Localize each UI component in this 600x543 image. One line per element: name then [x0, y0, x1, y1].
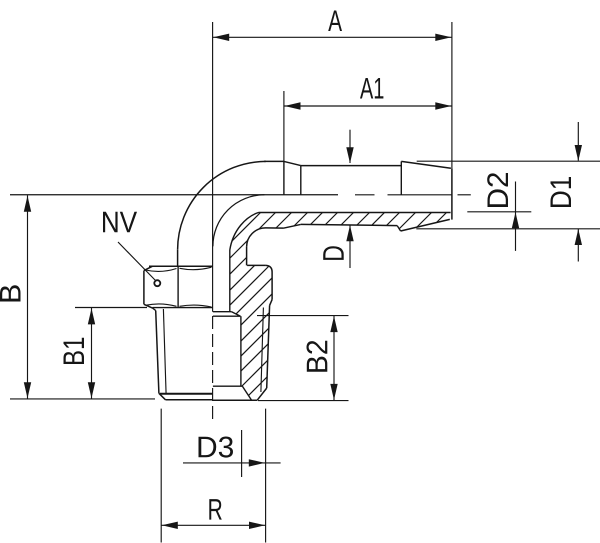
dim D1 extension top — [417, 160, 600, 162]
thread left crest edge — [156, 311, 159, 394]
horizontal centerline dash 1 — [355, 194, 375, 196]
bore corner arc — [230, 213, 259, 251]
NV leader dot — [154, 280, 160, 286]
label D3 — [198, 436, 233, 457]
vertical centerline (A extension) — [212, 22, 214, 312]
transition bottom step — [284, 224, 301, 228]
hex top left chamfer — [144, 266, 153, 270]
nipple bottom line — [301, 224, 397, 225]
tube end face — [451, 168, 453, 219]
bore shoulder lower — [213, 315, 241, 317]
thread bottom left chamfer — [159, 393, 166, 400]
dim B1 extension top — [75, 307, 147, 309]
barb transition cone — [284, 161, 301, 165]
dim D1 extension bottom — [416, 228, 600, 230]
barb back face — [400, 161, 402, 194]
horizontal section boundary line + B extension — [10, 194, 338, 196]
NV leader line — [118, 242, 156, 281]
dim A1 extension left — [283, 91, 285, 161]
hex right bottom chamfer — [270, 300, 273, 306]
dim D1 line lower — [577, 229, 579, 262]
dim D line lower — [349, 225, 351, 268]
hex face top chamfer arc middle — [180, 267, 212, 269]
dim D3 line — [183, 462, 281, 464]
tube bottom line — [266, 227, 284, 229]
dim D2 extension — [467, 211, 531, 213]
label NV — [103, 212, 137, 232]
label B1 — [64, 338, 84, 364]
barb cone bottom — [401, 219, 450, 231]
dim A extension right — [451, 22, 453, 168]
bottom face right — [213, 399, 257, 401]
dim B bottom extension — [10, 398, 155, 400]
dim B line — [27, 195, 29, 398]
transition front face — [300, 166, 302, 195]
dim R line — [161, 524, 265, 526]
label D2 — [487, 173, 508, 207]
bore bottom chamfer cone — [242, 386, 251, 400]
hex bottom line — [153, 307, 214, 309]
hex top line — [149, 265, 213, 267]
hex face top chamfer arc left — [146, 269, 177, 272]
elbow outer left edge — [177, 250, 179, 266]
armpit arc (inner bend outer surface) — [247, 228, 266, 247]
hex face line — [177, 266, 179, 307]
dim R extension right — [265, 409, 267, 543]
thread top left corner — [153, 308, 156, 310]
thread bottom right chamfer — [257, 388, 267, 400]
nipple top line — [301, 165, 402, 167]
section boundary arc — [213, 195, 265, 247]
dim A line — [213, 36, 452, 38]
dim D2 line — [515, 182, 517, 251]
barb bottom notch — [397, 226, 400, 231]
dim B2 extension top — [257, 315, 349, 317]
hex right edge — [271, 272, 273, 300]
dim B2 extension bottom — [258, 400, 349, 402]
label B2 — [306, 341, 327, 372]
label D — [323, 246, 343, 260]
label A — [328, 11, 342, 31]
bore shoulder upper — [213, 311, 232, 313]
vertical centerline dashes lower body — [212, 316, 214, 419]
down tube bore right edge — [229, 250, 231, 312]
label D1 — [551, 177, 571, 207]
label B — [0, 285, 20, 301]
hex left edge — [143, 271, 145, 305]
tube top line — [264, 160, 284, 162]
dim B2 line — [333, 316, 335, 400]
bore bottom chamfer shoulder — [213, 385, 243, 387]
hex face bottom chamfer arc left — [146, 304, 177, 306]
horizontal centerline dash 2 — [388, 194, 452, 196]
bore shoulder chamfer — [232, 312, 241, 317]
bore bottom line — [259, 212, 451, 214]
dim A1 line — [284, 105, 452, 107]
bottom chamfer ring edge left — [160, 393, 213, 395]
down tube outer right edge — [246, 247, 248, 266]
label R — [209, 499, 222, 519]
thread right root line — [261, 308, 264, 393]
hex top line right section — [247, 264, 266, 266]
hex bottom left chamfer — [144, 304, 153, 308]
dim D3 extension — [241, 430, 243, 477]
dim D1 line upper — [577, 122, 579, 161]
hex right rounded corner — [266, 265, 272, 272]
dim R extension left — [160, 409, 162, 543]
dim D line upper — [349, 130, 351, 163]
elbow outer arc — [178, 161, 266, 249]
label A1 — [360, 78, 383, 98]
barb cone top — [401, 161, 451, 168]
horizontal centerline stub right of tube — [458, 194, 471, 196]
dim B1 line — [91, 308, 93, 399]
thread right crest edge — [267, 305, 270, 388]
lower bore right edge — [240, 316, 242, 386]
barb transition back face — [283, 161, 285, 194]
thread left root line — [163, 309, 166, 394]
bottom face left — [166, 399, 213, 401]
hex face bottom chamfer arc middle — [180, 305, 212, 307]
